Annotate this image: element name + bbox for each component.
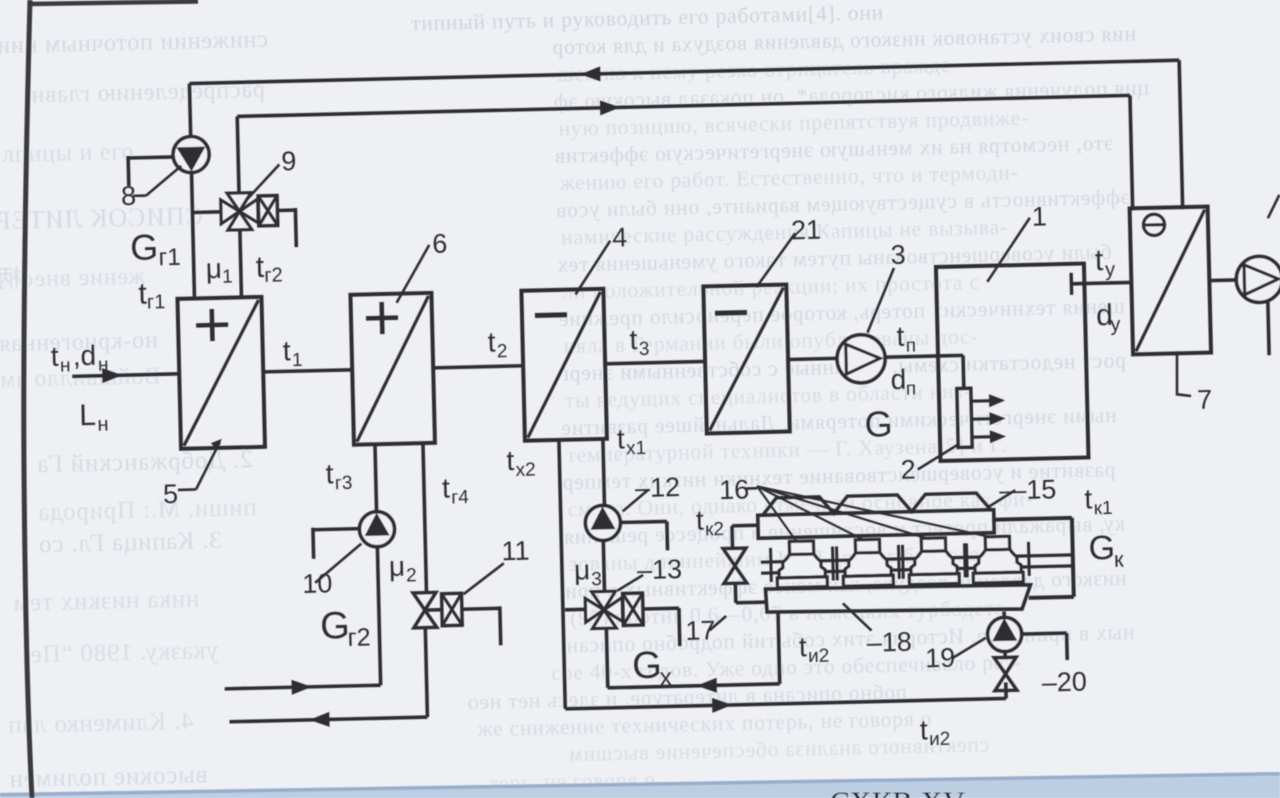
svg-text:п: п: [906, 378, 917, 399]
svg-text:x1: x1: [626, 438, 647, 459]
svg-text:t: t: [506, 445, 515, 476]
svg-text:17: 17: [685, 615, 716, 646]
svg-text:п: п: [906, 335, 917, 356]
svg-text:21: 21: [791, 215, 822, 246]
svg-text:лпицы и его: лпицы и его: [2, 139, 135, 168]
svg-text:7: 7: [1197, 385, 1213, 415]
svg-text:н: н: [60, 355, 71, 376]
svg-text:3. Капица Гл. со: 3. Капица Гл. со: [38, 527, 222, 558]
svg-text:x2: x2: [515, 459, 536, 480]
svg-text:μ: μ: [388, 551, 405, 582]
svg-text:3: 3: [591, 569, 602, 590]
svg-text:ника низких тем: ника низких тем: [12, 585, 199, 616]
svg-text:СХКВ XV: СХКВ XV: [830, 786, 965, 798]
svg-text:G: G: [320, 605, 351, 648]
svg-text:d: d: [890, 364, 906, 395]
svg-text:к1: к1: [1093, 498, 1112, 519]
svg-text:у: у: [1105, 259, 1116, 281]
svg-text:μ: μ: [574, 554, 591, 585]
svg-text:x: x: [659, 663, 673, 691]
svg-text:2: 2: [900, 455, 916, 485]
svg-text:к: к: [1114, 547, 1125, 572]
svg-text:1: 1: [292, 350, 303, 371]
svg-text:,d: ,d: [72, 340, 96, 372]
svg-text:2. Добржанский Га: 2. Добржанский Га: [36, 446, 253, 478]
svg-text:пиши. М.: Природа: пиши. М.: Природа: [37, 494, 257, 526]
svg-text:н: н: [98, 355, 109, 376]
svg-text:г2: г2: [347, 623, 371, 652]
svg-text:3: 3: [639, 339, 650, 360]
svg-text:11: 11: [501, 536, 530, 567]
svg-text:L: L: [79, 399, 96, 432]
svg-text:t: t: [282, 335, 291, 366]
svg-text:9: 9: [281, 146, 297, 176]
svg-text:г3: г3: [335, 473, 353, 494]
svg-text:t: t: [896, 321, 905, 352]
svg-text:G: G: [1088, 529, 1115, 568]
svg-text:СПИСОК ЛИТЕР: СПИСОК ЛИТЕР: [0, 201, 203, 235]
svg-text:и2: и2: [929, 729, 951, 750]
svg-text:16: 16: [719, 474, 750, 505]
svg-text:t: t: [629, 324, 638, 355]
svg-text:1: 1: [1031, 201, 1047, 231]
svg-text:4. Клименко лап: 4. Клименко лап: [7, 708, 194, 739]
svg-text:у: у: [1110, 314, 1121, 336]
svg-text:t: t: [325, 458, 334, 489]
svg-text:–12: –12: [635, 472, 681, 503]
svg-text:G: G: [864, 403, 893, 445]
svg-text:t: t: [919, 714, 928, 745]
svg-text:G: G: [632, 645, 663, 688]
svg-text:t: t: [487, 326, 496, 357]
svg-text:2: 2: [497, 341, 508, 362]
svg-text:н: н: [97, 414, 109, 436]
svg-text:t: t: [1084, 483, 1093, 514]
svg-text:t: t: [50, 341, 59, 372]
svg-text:высокие полимен: высокие полимен: [8, 761, 207, 793]
svg-text:–20: –20: [1041, 667, 1087, 698]
svg-text:t: t: [1094, 244, 1104, 277]
svg-text:–18: –18: [866, 627, 912, 658]
svg-text:19: 19: [925, 643, 956, 674]
svg-text:к2: к2: [705, 519, 724, 540]
svg-text:2: 2: [406, 565, 417, 586]
svg-text:t: t: [798, 631, 807, 662]
svg-text:и2: и2: [808, 646, 830, 667]
svg-text:t: t: [442, 473, 451, 504]
svg-text:г4: г4: [451, 487, 469, 508]
svg-text:t: t: [695, 505, 704, 536]
svg-text:—15: —15: [999, 474, 1057, 505]
svg-text:t: t: [617, 423, 626, 454]
svg-text:–13: –13: [637, 554, 683, 585]
svg-text:6: 6: [432, 229, 448, 259]
svg-text:указку. 1980 “Пе: указку. 1980 “Пе: [30, 637, 219, 668]
svg-text:3: 3: [890, 240, 906, 270]
svg-text:5: 5: [163, 479, 179, 509]
svg-text:4: 4: [612, 222, 628, 252]
